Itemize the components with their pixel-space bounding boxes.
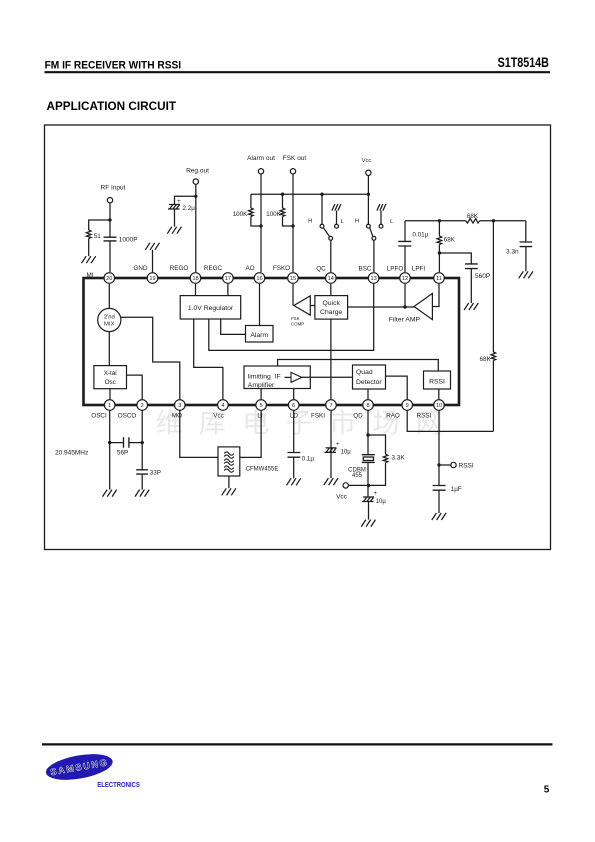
wire pole to pin 13: [373, 240, 375, 272]
wire pole to pin 14: [330, 240, 332, 272]
svg-text:L: L: [341, 219, 345, 225]
svg-text:QC: QC: [316, 266, 326, 273]
wire pin 5 to limiter: [260, 389, 262, 401]
wire ceramic filter to pin 5: [240, 410, 261, 457]
capacitor 56P: [124, 437, 129, 448]
svg-text:BSC: BSC: [359, 266, 372, 273]
wire L contact to ground: [336, 211, 338, 225]
resistor 68K horizontal: [466, 219, 480, 224]
svg-text:Quick: Quick: [323, 300, 341, 307]
svg-text:455: 455: [352, 473, 363, 479]
wire pin 15 to fsk comp: [292, 284, 294, 306]
svg-text:1000P: 1000P: [119, 236, 138, 243]
svg-text:Detector: Detector: [356, 379, 382, 386]
wire ground to pin 19: [152, 250, 154, 273]
wire fsk comp to quick charge: [310, 305, 315, 307]
svg-text:LD: LD: [290, 413, 299, 420]
ground: [82, 256, 96, 263]
svg-text:3.3K: 3.3K: [391, 455, 405, 462]
node bus junctions: [281, 193, 370, 196]
svg-text:560P: 560P: [475, 273, 490, 280]
svg-text:11: 11: [436, 276, 442, 282]
switch BSC contact H: [367, 224, 371, 228]
mixer 2'nd MIX: [98, 308, 121, 331]
wire mixer output to pin 3: [121, 317, 180, 400]
svg-text:AO: AO: [245, 265, 254, 272]
resistor 51: [86, 230, 91, 239]
wire vcc terminal to node: [348, 484, 368, 486]
ground: [287, 478, 301, 485]
wire pin 1 to ground: [109, 410, 111, 490]
wire 2.2u to ground: [174, 209, 176, 227]
wire to capacitor 56P: [110, 442, 143, 444]
pin 11 LPFI: [434, 273, 445, 284]
wire quad detector to pin 8: [367, 389, 369, 400]
node RF junction: [108, 218, 111, 221]
schematic frame box: [45, 125, 551, 550]
wire feedback 68K vertical run: [492, 221, 494, 432]
wire quick charge to pin 7: [330, 319, 332, 400]
ground: [519, 271, 533, 278]
svg-text:8: 8: [366, 403, 369, 409]
svg-text:10: 10: [436, 403, 442, 409]
wire quad detector to pin 9: [386, 376, 408, 400]
wire pin 6 to limiter: [293, 389, 295, 401]
wire 68K to pin 11: [438, 245, 440, 273]
node below 68K: [438, 251, 441, 254]
ground: [324, 478, 338, 485]
ground: [167, 227, 181, 234]
pin 4 Vcc: [218, 400, 229, 411]
wire quick charge to filter amp: [348, 306, 414, 308]
block Quick Charge: [315, 296, 348, 320]
wire L contact to ground: [380, 211, 382, 225]
svg-text:Quad: Quad: [356, 369, 373, 376]
wire pin 18 to regulator: [195, 284, 197, 296]
svg-text:5: 5: [544, 785, 550, 796]
svg-text:LPFI: LPFI: [412, 266, 426, 273]
node top line junctions: [438, 219, 495, 222]
op-amp IC S1T8514B body: [84, 278, 460, 405]
pin 12 LPFO: [400, 273, 411, 284]
svg-text:FSK: FSK: [291, 316, 300, 321]
pin 17 REGC: [223, 273, 234, 284]
switch BSC pole: [372, 236, 376, 240]
svg-text:7: 7: [329, 403, 332, 409]
wire 100K to AO line: [251, 217, 261, 227]
svg-text:RSSI: RSSI: [459, 463, 474, 470]
svg-text:1µF: 1µF: [451, 486, 462, 493]
pin 8 QD: [363, 400, 374, 411]
svg-text:10µ: 10µ: [376, 499, 387, 505]
svg-text:CFMW455E: CFMW455E: [246, 467, 279, 473]
svg-text:9: 9: [406, 403, 409, 409]
capacitor 10u electrolytic second: [362, 497, 374, 502]
svg-text:68K: 68K: [479, 356, 491, 363]
svg-text:20: 20: [106, 276, 112, 282]
wire 0.1u to ground: [293, 457, 295, 478]
terminal FSK out: [290, 169, 295, 174]
wire pin 9 to feedback: [407, 410, 493, 431]
wire xtal to pin 2: [127, 375, 143, 400]
svg-text:4: 4: [221, 403, 224, 409]
block Quad Detector: [353, 365, 386, 389]
svg-text:LPFO: LPFO: [387, 266, 404, 273]
svg-text:1.0V Regulator: 1.0V Regulator: [188, 305, 234, 312]
capacitor 1uF: [433, 486, 446, 491]
svg-text:LI: LI: [257, 413, 263, 420]
pin 18 REGO: [190, 273, 201, 284]
svg-text:limitting IF: limitting IF: [248, 373, 281, 380]
pin 3 MO: [175, 400, 186, 411]
svg-text:OSCI: OSCI: [91, 413, 107, 420]
wire 560P to ground: [470, 269, 472, 303]
node: [291, 224, 294, 227]
capacitor 33P: [136, 470, 148, 474]
svg-text:+: +: [374, 491, 378, 497]
svg-text:RF Input: RF Input: [101, 185, 126, 192]
node pin 12 junction: [403, 305, 406, 308]
switch BSC contact L: [379, 224, 383, 228]
resistor 100K second: [282, 194, 284, 208]
svg-text:6: 6: [292, 403, 295, 409]
wire pin 20 to mixer: [108, 284, 110, 308]
svg-text:RSSI: RSSI: [429, 378, 445, 385]
ground small: [332, 204, 341, 211]
node vcc junction: [367, 484, 370, 487]
footer rule: [42, 743, 553, 745]
ground: [432, 513, 446, 520]
resistor 68K feedback: [491, 352, 496, 361]
svg-text:16: 16: [256, 276, 262, 282]
block X-tal Osc: [94, 366, 127, 389]
svg-text:15: 15: [290, 276, 296, 282]
capacitor 10u electrolytic: [325, 448, 337, 453]
node Reg.out junction: [194, 195, 197, 198]
pin 14 QC: [326, 273, 337, 284]
wire regulator to pin 4: [194, 319, 223, 400]
wire to rssi terminal: [439, 464, 451, 466]
node crystal junction: [108, 441, 111, 444]
svg-text:1: 1: [108, 403, 111, 409]
svg-text:+: +: [336, 442, 340, 448]
logo SAMSUNG ellipse: [44, 750, 115, 785]
capacitor 3.3n: [520, 242, 533, 247]
svg-text:100K: 100K: [266, 211, 282, 218]
svg-text:51: 51: [94, 233, 102, 240]
svg-text:GND: GND: [134, 265, 148, 272]
wire FSK out to pin 15: [292, 174, 294, 272]
ground above pin 19: [145, 243, 159, 250]
switch BSC lever: [370, 228, 373, 237]
wire 10u to ground: [368, 502, 370, 520]
svg-text:Charge: Charge: [320, 309, 343, 316]
wire pin 6 to capacitor 0.1u: [293, 410, 295, 453]
svg-text:REGC: REGC: [204, 265, 223, 272]
pin 2 OSCO: [137, 400, 148, 411]
terminal Reg.out: [193, 179, 198, 184]
wire Reg.out to pin 18: [195, 184, 197, 272]
terminal RSSI: [451, 462, 456, 467]
terminal Vcc: [366, 170, 371, 175]
pin 1 OSCI: [104, 400, 115, 411]
terminal Vcc: [343, 483, 348, 488]
ground: [464, 303, 478, 310]
svg-text:5: 5: [260, 403, 263, 409]
ground: [222, 488, 236, 495]
wire Alarm out to pin 16: [260, 174, 262, 272]
wire pin 8 to discriminator: [367, 410, 369, 455]
wire LPF top line: [405, 220, 526, 222]
pin 16 AO: [254, 273, 265, 284]
node qd junction: [366, 433, 369, 436]
svg-text:Reg.out: Reg.out: [186, 167, 209, 174]
svg-text:Vcc: Vcc: [213, 413, 224, 420]
svg-text:12: 12: [402, 276, 408, 282]
op-amp Filter AMP: [414, 293, 432, 319]
switch QC contact L: [335, 224, 339, 228]
wire to resistor 3.3K: [368, 435, 386, 454]
wire regulator to alarm block: [221, 319, 246, 334]
wire pull-up bus: [251, 193, 369, 195]
svg-text:MI: MI: [87, 272, 94, 279]
wire filter amp output to pin 11: [432, 284, 439, 307]
svg-text:3: 3: [178, 403, 181, 409]
svg-text:68K: 68K: [444, 236, 456, 243]
wire to resistor 51: [89, 220, 110, 230]
wire pin 17 to regulator: [227, 284, 229, 296]
wire pin 10 to rssi output: [438, 410, 440, 486]
node osco junction: [141, 441, 144, 444]
wire limiter bus to rssi block: [278, 360, 439, 372]
node rssi junction: [437, 463, 440, 466]
wire resistor to ground: [88, 239, 90, 257]
svg-text:56P: 56P: [117, 449, 128, 456]
pin 10 RSSI: [434, 400, 445, 411]
svg-text:QD: QD: [353, 413, 363, 420]
capacitor 0.1u: [288, 453, 301, 458]
pin 5 LI: [256, 400, 267, 411]
svg-text:Vcc: Vcc: [336, 493, 348, 500]
svg-text:X-tal: X-tal: [104, 370, 117, 377]
wire mixer to xtal osc: [108, 332, 110, 366]
switch QC lever: [323, 228, 329, 237]
pin 19 GND: [147, 273, 158, 284]
wire ceramic filter to ground: [228, 476, 230, 488]
wire regulator to pin 13 net: [209, 284, 374, 350]
svg-text:2'nd: 2'nd: [104, 314, 115, 320]
svg-text:0.01µ: 0.01µ: [412, 231, 428, 238]
svg-text:10µ: 10µ: [341, 449, 352, 455]
ground: [361, 520, 375, 527]
svg-text:100K: 100K: [233, 211, 249, 218]
wire xtal to pin 1: [109, 389, 111, 400]
svg-text:Osc: Osc: [105, 379, 116, 386]
wire rssi block to pin 10: [438, 389, 440, 400]
comparator FSK COMP: [294, 296, 310, 315]
block 1.0V Regulator: [180, 296, 241, 319]
svg-text:2: 2: [141, 403, 144, 409]
wire 3.3K to vcc node: [369, 463, 386, 486]
svg-text:MIX: MIX: [104, 322, 115, 328]
wire 100K to FSKO line: [283, 217, 294, 227]
block Alarm: [246, 326, 274, 343]
svg-text:维库电子市场网: 维库电子市场网: [156, 409, 460, 439]
pin 20 MI: [104, 273, 115, 284]
wire to capacitor 0.01u: [404, 221, 406, 242]
pin 9 RAO: [402, 400, 413, 411]
pin 7 FSKI: [326, 400, 337, 411]
svg-text:FSKI: FSKI: [311, 413, 325, 420]
wire pin 2 to capacitor 33P: [141, 410, 143, 470]
svg-text:H: H: [308, 219, 312, 225]
wire 1uF to ground: [438, 490, 440, 513]
svg-text:Alarm out: Alarm out: [247, 155, 275, 162]
svg-text:OSCO: OSCO: [118, 413, 137, 420]
svg-text:13: 13: [370, 276, 376, 282]
svg-text:19: 19: [149, 276, 155, 282]
svg-text:RAO: RAO: [386, 413, 400, 420]
block RSSI: [424, 371, 451, 389]
svg-text:20.945MHz: 20.945MHz: [55, 449, 88, 456]
switch QC pole: [329, 236, 333, 240]
wire discriminator to vcc node: [367, 462, 369, 497]
wire limiter to quad detector: [302, 376, 353, 378]
wire 33P to ground: [141, 474, 143, 490]
svg-text:RSSI: RSSI: [417, 413, 432, 420]
wire pin 7 to ground: [330, 410, 332, 478]
svg-text:MO: MO: [172, 413, 182, 420]
wire to capacitor 2.2u: [175, 196, 196, 204]
svg-text:H: H: [355, 219, 359, 225]
capacitor 560P: [465, 264, 478, 269]
svg-text:0.1µ: 0.1µ: [302, 455, 315, 462]
svg-text:2.2µ: 2.2µ: [183, 205, 196, 212]
capacitor 0.01u: [398, 241, 411, 246]
svg-text:Alarm: Alarm: [250, 332, 268, 339]
svg-text:L: L: [390, 219, 394, 225]
wire to resistor 68K vertical: [438, 221, 440, 236]
wire pin 3 to ceramic filter: [180, 410, 218, 457]
resonator CDBM455: [362, 455, 375, 463]
wire pin 14 to quick charge: [330, 284, 332, 296]
svg-text:APPLICATION CIRCUIT: APPLICATION CIRCUIT: [47, 99, 177, 113]
wire bus to switch1 H contact: [321, 194, 323, 224]
wire 0.01u to pin 12: [404, 246, 406, 272]
svg-text:S1T8514B: S1T8514B: [498, 55, 549, 70]
svg-text:FSKO: FSKO: [273, 265, 290, 272]
svg-text:Vcc: Vcc: [362, 158, 372, 164]
wire RF input to pin 20: [109, 203, 111, 272]
svg-text:ELECTRONICS: ELECTRONICS: [97, 780, 140, 789]
header rule: [45, 71, 551, 73]
pin 15 FSKO: [288, 273, 299, 284]
wire Vcc down: [367, 176, 369, 225]
svg-text:18: 18: [192, 276, 198, 282]
svg-text:FM IF RECEIVER WITH RSSI: FM IF RECEIVER WITH RSSI: [45, 60, 182, 72]
svg-text:17: 17: [225, 276, 231, 282]
capacitor 1000P: [104, 237, 117, 241]
wire to capacitor 3.3n: [525, 221, 527, 242]
terminal RF Input: [107, 198, 112, 203]
ground: [135, 490, 149, 497]
op-amp limiter triangle: [285, 376, 292, 378]
svg-text:COMP: COMP: [291, 321, 304, 326]
wire pin 16 to alarm: [259, 284, 261, 326]
filter CFMW455E: [218, 447, 240, 476]
resistor 68K vertical: [437, 236, 442, 245]
svg-text:33P: 33P: [150, 470, 161, 477]
svg-text:REGO: REGO: [170, 265, 189, 272]
node: [259, 224, 262, 227]
ground small: [377, 204, 386, 211]
resistor 3.3K: [383, 454, 388, 463]
block limiting IF Amplifier: [244, 366, 310, 389]
wire to capacitor 560P: [439, 253, 471, 264]
ground: [103, 490, 117, 497]
wire 3.3n to ground: [525, 247, 527, 272]
svg-text:FSK out: FSK out: [283, 155, 307, 162]
svg-text:68K: 68K: [467, 213, 479, 220]
terminal Alarm out: [258, 169, 263, 174]
svg-text:3.3n: 3.3n: [506, 249, 519, 256]
svg-text:Amplifier: Amplifier: [248, 382, 275, 389]
capacitor C 2.2u electrolytic: [168, 205, 180, 210]
svg-text:+: +: [177, 199, 181, 205]
switch QC contact H: [320, 224, 324, 228]
svg-text:14: 14: [328, 276, 334, 282]
wire pin 12 down: [404, 284, 406, 307]
pin 6 LD: [288, 400, 299, 411]
resistor 100K first: [250, 194, 252, 208]
pin 13 BSC: [368, 273, 379, 284]
svg-text:Filter AMP: Filter AMP: [389, 317, 421, 324]
